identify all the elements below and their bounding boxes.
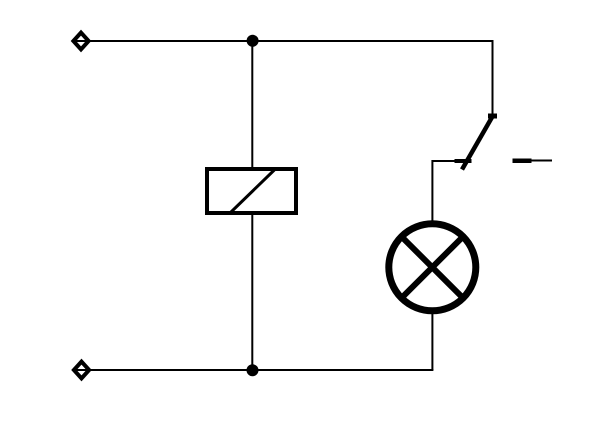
switch S1 left contact bar bbox=[455, 159, 472, 163]
wire contact to lamp bbox=[432, 161, 456, 226]
terminal X1 (top-left diamond) bbox=[73, 33, 88, 50]
wire bottom bus bbox=[72, 369, 433, 371]
wire coil top bbox=[251, 41, 253, 167]
wire lamp bottom bbox=[431, 309, 433, 370]
switch S1 right contact bar bbox=[513, 158, 532, 163]
node junction bottom bbox=[247, 364, 259, 376]
wire right contact stub bbox=[531, 160, 552, 162]
relay coil K1 bbox=[207, 169, 296, 213]
lamp E1 bbox=[389, 224, 476, 311]
wire coil bottom bbox=[251, 215, 253, 370]
terminal X2 (bottom-left diamond) bbox=[74, 362, 89, 379]
switch S1 lever bbox=[462, 116, 493, 170]
switch S1 pivot tick bbox=[488, 114, 497, 119]
wire top bus bbox=[72, 40, 493, 42]
wire right drop to switch bbox=[492, 40, 494, 116]
node junction top bbox=[247, 35, 259, 47]
